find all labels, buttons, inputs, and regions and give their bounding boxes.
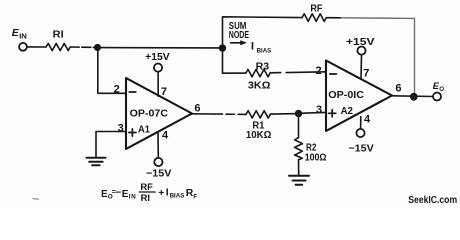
svg-text:RF: RF bbox=[310, 4, 322, 15]
node A junction bbox=[94, 44, 101, 51]
resistor R2 100 ohm bbox=[295, 138, 327, 164]
svg-text:A1: A1 bbox=[138, 125, 150, 136]
svg-text:E: E bbox=[122, 189, 129, 200]
-15V supply A1 bbox=[146, 158, 172, 180]
svg-text:100Ω: 100Ω bbox=[305, 152, 327, 163]
wire +15V to A2 pin 7 bbox=[360, 55, 363, 79]
wire R1 10K to node B bbox=[270, 113, 294, 115]
ground (A1 pin 3) bbox=[87, 158, 106, 166]
svg-text:OP-0IC: OP-0IC bbox=[328, 90, 364, 101]
wire sum node up to feedback bbox=[223, 17, 303, 45]
svg-text:3: 3 bbox=[118, 122, 124, 134]
sum node junction bbox=[219, 44, 226, 51]
svg-text:4: 4 bbox=[162, 129, 169, 141]
resistor R3 bbox=[246, 61, 271, 91]
wire A2 pin 4 to -15V bbox=[360, 117, 362, 129]
resistor RF bbox=[302, 4, 326, 22]
svg-text:4: 4 bbox=[364, 114, 371, 126]
wire node B down to R2 bbox=[298, 117, 300, 138]
+15V supply A1 bbox=[145, 52, 170, 71]
svg-text:I: I bbox=[251, 41, 254, 53]
svg-text:RF: RF bbox=[140, 181, 153, 192]
op-amp A1 bbox=[126, 78, 192, 149]
svg-text:IN: IN bbox=[19, 34, 27, 41]
output node junction bbox=[410, 93, 418, 101]
wire RF to output node bbox=[326, 17, 341, 19]
svg-text:O: O bbox=[439, 86, 444, 93]
wire node A to sum node bbox=[101, 47, 219, 49]
IBIAS arrow bbox=[231, 40, 272, 54]
resistor RI (input) bbox=[46, 30, 70, 51]
svg-text:2: 2 bbox=[114, 83, 120, 95]
svg-text:F: F bbox=[193, 193, 197, 200]
svg-text:3: 3 bbox=[316, 104, 322, 116]
resistor R1 10K bbox=[246, 111, 272, 141]
wire A1 pin 3 to ground bbox=[96, 132, 126, 157]
svg-text:RI: RI bbox=[53, 30, 64, 41]
wire sum node down to R3 bbox=[223, 52, 246, 73]
svg-text:IN: IN bbox=[129, 194, 136, 201]
wire EIN to R1 bbox=[27, 46, 46, 48]
wire A1 pin 4 to -15V bbox=[157, 132, 159, 158]
ground (R2) bbox=[289, 176, 309, 185]
formula EO = -EIN RF/RI + IBIAS RF bbox=[101, 181, 197, 203]
svg-text:RI: RI bbox=[141, 192, 150, 203]
svg-text:−15V: −15V bbox=[146, 169, 172, 180]
wire A1 output to R1 10K bbox=[192, 113, 214, 115]
svg-text:I: I bbox=[166, 187, 169, 198]
+15V supply A2 bbox=[346, 37, 375, 55]
svg-text:A2: A2 bbox=[341, 106, 353, 117]
wire node A down to A1 pin 2 bbox=[98, 51, 126, 93]
svg-text:10KΩ: 10KΩ bbox=[246, 130, 272, 141]
SUM NODE label bbox=[229, 21, 249, 41]
wire A2 output to EO bbox=[392, 95, 433, 98]
svg-text:+15V: +15V bbox=[145, 52, 170, 63]
wire +15V to A1 pin 7 bbox=[157, 72, 159, 96]
svg-text:−15V: −15V bbox=[348, 143, 374, 154]
svg-text:6: 6 bbox=[395, 82, 401, 94]
wire R1 to node A bbox=[70, 46, 97, 48]
svg-text:R3: R3 bbox=[256, 61, 270, 72]
scan smudge mark bbox=[33, 198, 39, 201]
-15V supply A2 bbox=[348, 129, 374, 154]
node B junction bbox=[295, 110, 302, 117]
svg-text:−: − bbox=[115, 187, 121, 198]
svg-text:3KΩ: 3KΩ bbox=[248, 81, 271, 92]
svg-text:BIAS: BIAS bbox=[257, 48, 272, 55]
svg-text:+: + bbox=[158, 188, 164, 199]
svg-text:2: 2 bbox=[316, 65, 322, 77]
svg-text:BIAS: BIAS bbox=[170, 193, 185, 200]
svg-text:7: 7 bbox=[363, 68, 369, 80]
svg-text:NODE: NODE bbox=[229, 30, 249, 41]
svg-text:6: 6 bbox=[194, 102, 200, 114]
terminal EO bbox=[433, 81, 444, 100]
svg-text:OP-07C: OP-07C bbox=[130, 109, 168, 120]
wire node B to A2 pin 3 bbox=[302, 111, 326, 114]
wire R3 to A2 pin 2 bbox=[270, 72, 326, 73]
svg-text:7: 7 bbox=[161, 86, 167, 98]
wire R2 to ground bbox=[298, 160, 300, 175]
svg-text:SeekIC.com: SeekIC.com bbox=[408, 195, 457, 206]
terminal EIN bbox=[12, 28, 27, 50]
op-amp A2 bbox=[326, 61, 392, 132]
